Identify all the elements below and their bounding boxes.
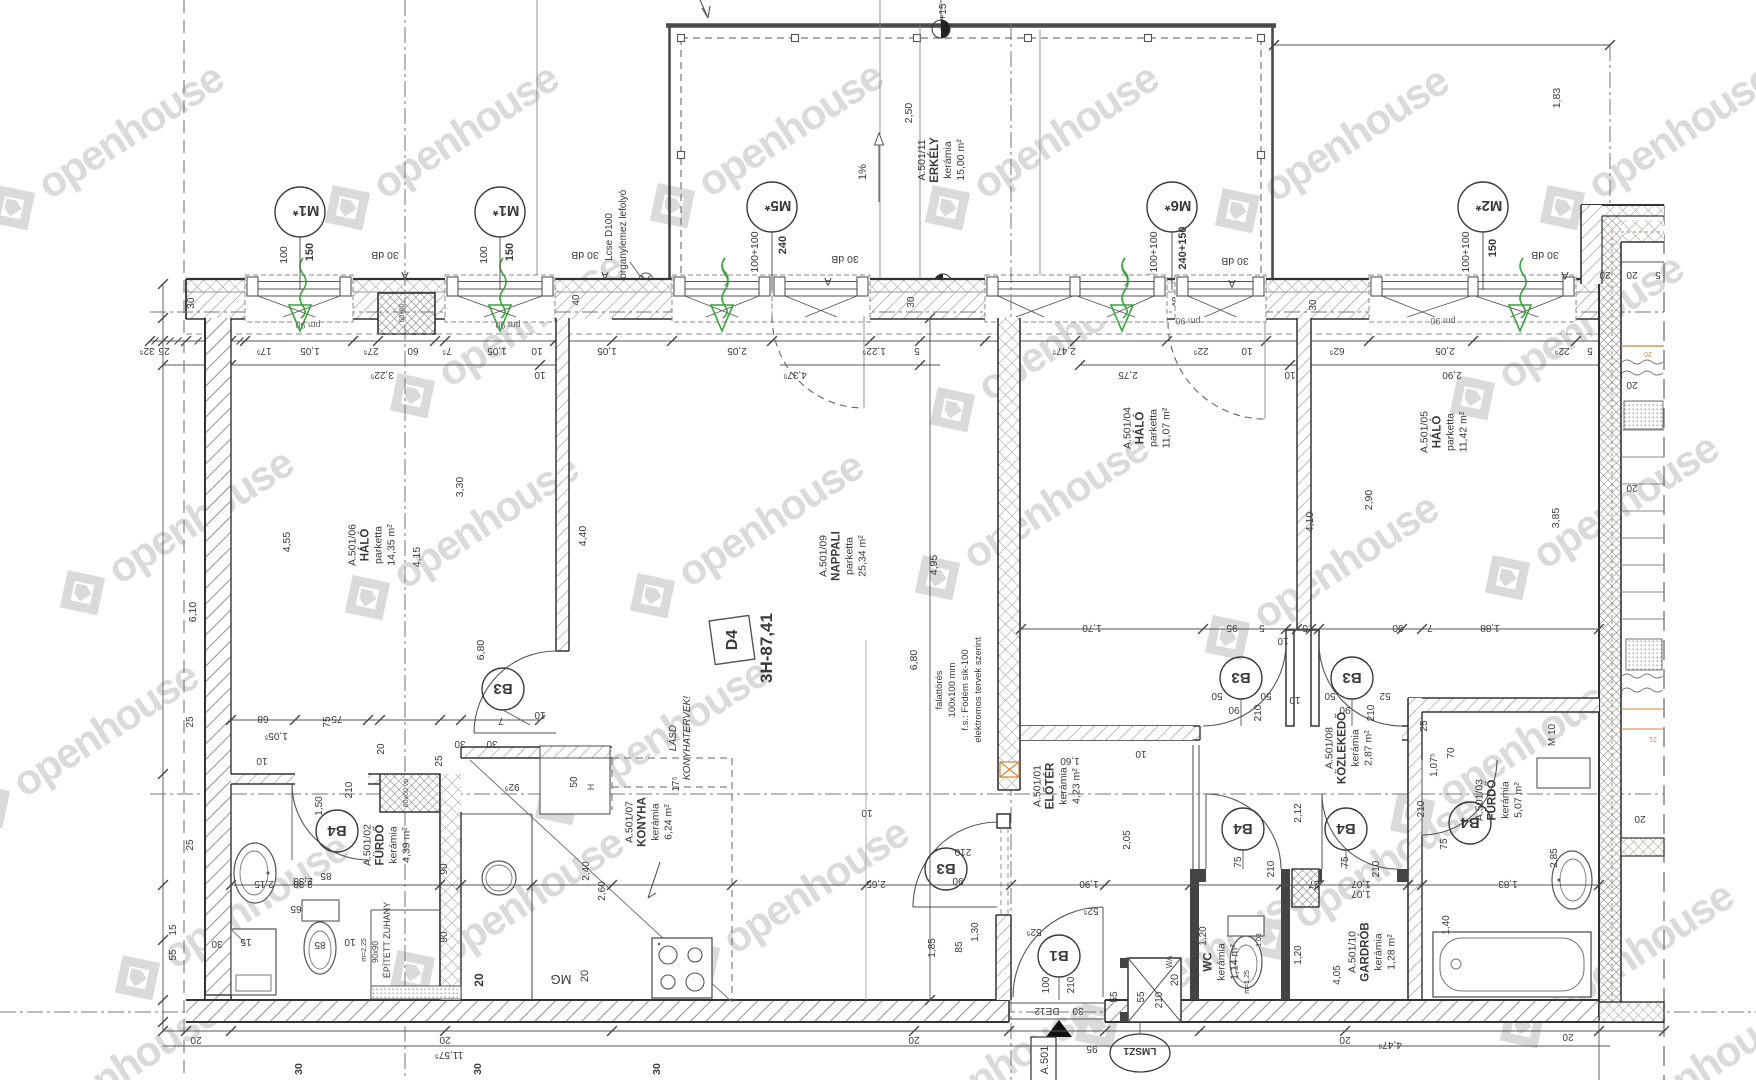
svg-text:KONYHATERVEK!: KONYHATERVEK! [682, 696, 693, 780]
svg-text:HÁLÓ: HÁLÓ [359, 529, 372, 562]
svg-text:2,05: 2,05 [727, 345, 747, 356]
svg-text:11,57⁵: 11,57⁵ [435, 1049, 463, 1060]
main axis dash-dot A [150, 311, 1664, 313]
svg-text:100+100: 100+100 [749, 231, 761, 272]
svg-text:A.501/01: A.501/01 [1032, 765, 1044, 807]
svg-text:5: 5 [1302, 622, 1308, 633]
svg-text:210: 210 [1154, 991, 1165, 1008]
svg-text:falattörés: falattörés [934, 670, 945, 709]
furdo03 washbasin [1552, 851, 1592, 909]
svg-text:68: 68 [257, 713, 269, 724]
window 985-1167 [985, 275, 1167, 322]
svg-text:m=1,25: m=1,25 [1244, 970, 1251, 994]
svg-text:pm 90: pm 90 [1430, 316, 1455, 326]
mid axis dash-dot horizontal [150, 793, 1664, 795]
svg-text:1,28 m²: 1,28 m² [1386, 934, 1398, 970]
svg-text:2,40: 2,40 [581, 861, 592, 881]
svg-text:m=2,25: m=2,25 [361, 938, 368, 962]
furdo02 washbasin [234, 843, 276, 903]
svg-text:40: 40 [571, 294, 582, 306]
ELOTER/KOZLEKEDO partition [1192, 745, 1194, 869]
bubble B1 [1038, 935, 1080, 977]
svg-text:10: 10 [534, 369, 546, 380]
svg-text:210: 210 [1371, 860, 1382, 877]
svg-text:240+150: 240+150 [1177, 226, 1189, 269]
svg-text:pm 90: pm 90 [495, 320, 520, 330]
svg-text:10: 10 [861, 807, 873, 818]
B1 entry door [1013, 907, 1103, 997]
svg-text:55: 55 [168, 949, 179, 961]
svg-text:1,83: 1,83 [1551, 88, 1563, 109]
svg-text:4,95: 4,95 [928, 555, 940, 576]
svg-text:1,88: 1,88 [1480, 622, 1500, 633]
svg-text:20: 20 [472, 973, 486, 987]
svg-text:KONYHA: KONYHA [637, 797, 649, 847]
svg-text:150: 150 [304, 243, 316, 261]
window 445-555 [445, 275, 555, 322]
svg-text:5: 5 [914, 345, 920, 356]
svg-text:100+100: 100+100 [1460, 231, 1472, 272]
svg-text:parketta: parketta [1445, 413, 1457, 451]
B4 door KOZLEKEDO->WC [1206, 794, 1281, 869]
svg-text:D4: D4 [724, 630, 741, 651]
svg-text:H: H [586, 784, 596, 791]
svg-text:kerámia: kerámia [1373, 933, 1385, 971]
svg-text:A.501/11: A.501/11 [916, 139, 928, 180]
svg-text:kerámia: kerámia [1058, 767, 1070, 805]
right exterior crosshatched wall [1599, 215, 1621, 1017]
window 772-870 [772, 275, 870, 322]
fresh air inlet arrow [1520, 258, 1526, 318]
svg-text:B4: B4 [327, 822, 347, 839]
svg-text:2,50: 2,50 [903, 103, 915, 124]
svg-text:M1*: M1* [293, 202, 320, 219]
balcony ERKELY outline [666, 23, 1276, 28]
svg-text:1,30: 1,30 [970, 922, 981, 942]
svg-text:Lcse D100: Lcse D100 [604, 213, 615, 261]
svg-text:20: 20 [1169, 974, 1181, 986]
svg-text:95: 95 [1226, 622, 1238, 633]
svg-text:10: 10 [344, 936, 356, 947]
svg-text:20: 20 [376, 743, 387, 755]
KONYHA leader arrow [648, 862, 660, 898]
svg-text:A: A [1561, 269, 1569, 281]
svg-text:210: 210 [1416, 800, 1427, 817]
svg-text:2,90: 2,90 [1363, 490, 1375, 511]
door niche walls between bedrooms [1286, 630, 1294, 726]
svg-text:100: 100 [478, 246, 490, 264]
svg-text:1,70: 1,70 [1082, 622, 1102, 633]
svg-text:WA: WA [1165, 955, 1174, 968]
svg-text:FÜRDŐ: FÜRDŐ [1486, 780, 1499, 821]
svg-text:B3: B3 [1342, 669, 1361, 686]
svg-text:A: A [824, 275, 832, 287]
bubble B3 [925, 848, 967, 890]
M reference bubbles [275, 187, 325, 290]
furdo02 wc toilet [302, 900, 339, 921]
svg-text:92⁵: 92⁵ [504, 781, 519, 792]
left vertical chain [162, 284, 164, 1031]
svg-text:210: 210 [344, 781, 355, 798]
svg-text:30 dB: 30 dB [1531, 249, 1558, 261]
balcony division + witness lines [919, 25, 921, 290]
svg-text:10: 10 [1241, 345, 1253, 356]
bottom axis dash-dot [0, 1011, 1756, 1013]
vertical axis B [404, 0, 406, 1080]
svg-text:10: 10 [1289, 694, 1301, 705]
svg-text:52⁵: 52⁵ [1026, 926, 1041, 937]
svg-text:B4: B4 [1233, 820, 1253, 837]
svg-text:kerámia: kerámia [1500, 781, 1512, 819]
svg-text:LMSZ1: LMSZ1 [1123, 1045, 1156, 1056]
svg-text:70: 70 [1446, 747, 1457, 759]
svg-text:1,20: 1,20 [1293, 945, 1304, 965]
svg-text:3,30: 3,30 [454, 477, 466, 498]
svg-text:20: 20 [190, 1034, 202, 1045]
svg-text:100: 100 [278, 246, 290, 264]
svg-text:2,47⁵: 2,47⁵ [1052, 345, 1076, 356]
svg-text:A.501/10: A.501/10 [1190, 941, 1202, 983]
svg-text:25: 25 [434, 755, 445, 767]
svg-text:30: 30 [186, 297, 197, 309]
window 245-353 [245, 275, 353, 322]
svg-text:A: A [601, 269, 609, 281]
nappali vertical chain [929, 318, 931, 1000]
fresh air inlet arrow [500, 258, 506, 318]
svg-text:90x90: 90x90 [371, 941, 380, 963]
svg-text:95: 95 [1086, 1043, 1098, 1054]
svg-text:11,42 m²: 11,42 m² [1458, 411, 1470, 452]
svg-text:2,87 m²: 2,87 m² [1363, 730, 1375, 766]
balcony door dashed swing [772, 316, 864, 408]
svg-text:WC: WC [1203, 952, 1215, 971]
svg-text:A.501/06: A.501/06 [347, 524, 359, 566]
svg-text:85: 85 [954, 941, 965, 953]
svg-text:20: 20 [1562, 1031, 1574, 1042]
B3 door ELOTER->HALO04 [1203, 643, 1286, 726]
svg-text:parketta: parketta [373, 526, 385, 564]
svg-text:A.501/04: A.501/04 [1122, 407, 1134, 449]
svg-text:DE12: DE12 [1034, 1005, 1059, 1016]
svg-text:90: 90 [439, 931, 450, 943]
arrow into balcony corner [700, 0, 710, 18]
svg-text:B3: B3 [1231, 669, 1250, 686]
+15 level mark top [940, 0, 942, 30]
svg-text:1,05⁵: 1,05⁵ [264, 730, 288, 741]
bottom exterior wall [186, 1000, 1009, 1022]
stove [652, 938, 712, 998]
svg-text:20: 20 [439, 1034, 451, 1045]
WC / GARDROB walls [1190, 869, 1199, 1000]
svg-text:A.501/08: A.501/08 [1324, 727, 1336, 769]
svg-text:M6*: M6* [1165, 197, 1192, 214]
wall HALO04 / HALO05 [1297, 318, 1311, 630]
top-right corner walls [1581, 205, 1664, 216]
svg-text:2,05: 2,05 [1435, 345, 1455, 356]
svg-text:2,90: 2,90 [1442, 369, 1462, 380]
svg-text:30 dB: 30 dB [831, 253, 858, 265]
svg-text:50: 50 [1324, 690, 1336, 701]
svg-text:NAPPALI: NAPPALI [831, 531, 843, 581]
svg-text:1,03: 1,03 [1256, 933, 1263, 947]
svg-text:17⁵: 17⁵ [256, 345, 271, 356]
svg-text:A.501/02: A.501/02 [362, 824, 374, 866]
svg-text:100x100 mm: 100x100 mm [947, 662, 958, 717]
svg-text:4,10: 4,10 [1304, 512, 1316, 533]
LMSZ1 bubble [1110, 1034, 1170, 1072]
svg-text:A.501/07: A.501/07 [624, 801, 636, 843]
svg-text:kerámia: kerámia [942, 141, 954, 179]
svg-text:B3: B3 [493, 680, 512, 697]
vertical axis through entry wall [1010, 24, 1012, 1080]
bubble B4 [1222, 808, 1264, 850]
B4 door KOZLEKEDO->GARDROB [1322, 794, 1397, 869]
svg-text:20: 20 [579, 970, 591, 982]
shower enclosure [370, 910, 372, 999]
svg-text:MG: MG [551, 972, 572, 987]
svg-text:LÁSD: LÁSD [666, 725, 679, 751]
svg-text:50: 50 [1260, 690, 1272, 701]
svg-text:B4: B4 [1460, 814, 1480, 831]
chain halo06 y720 [231, 719, 540, 721]
svg-text:B1: B1 [1049, 947, 1068, 964]
svg-text:20: 20 [1626, 482, 1638, 493]
svg-text:90: 90 [1392, 622, 1404, 633]
svg-text:15,00 m²: 15,00 m² [955, 139, 967, 181]
svg-text:M5*: M5* [765, 197, 792, 214]
svg-text:ERKÉLY: ERKÉLY [928, 137, 941, 183]
svg-text:10: 10 [1135, 748, 1147, 759]
kitchen diagonal leader [470, 760, 731, 1001]
svg-text:1,07: 1,07 [1351, 878, 1371, 889]
1% slope arrow [878, 133, 880, 202]
svg-text:21: 21 [1649, 735, 1657, 742]
wc room toilet [1228, 916, 1264, 936]
svg-text:2,75: 2,75 [1118, 369, 1138, 380]
svg-text:5: 5 [1655, 269, 1661, 280]
svg-text:210: 210 [1253, 704, 1264, 721]
halo04 balcony door dashed swing [1168, 322, 1265, 419]
svg-text:1,07: 1,07 [1351, 888, 1371, 899]
svg-text:1,83: 1,83 [1498, 878, 1518, 889]
svg-text:1,05: 1,05 [300, 345, 320, 356]
bubble B4 [1449, 802, 1491, 844]
svg-text:2,12: 2,12 [1293, 803, 1304, 823]
svg-text:4,55: 4,55 [281, 532, 293, 553]
svg-text:20: 20 [1339, 1034, 1351, 1045]
svg-text:210: 210 [1066, 976, 1077, 993]
chain bedrooms y629 [1021, 628, 1599, 630]
svg-text:4,40: 4,40 [577, 526, 589, 547]
svg-text:27⁵: 27⁵ [363, 345, 378, 356]
svg-text:20: 20 [908, 1034, 920, 1045]
svg-text:65: 65 [290, 903, 302, 914]
svg-text:B3: B3 [936, 860, 955, 877]
svg-text:30: 30 [293, 1063, 305, 1075]
svg-text:7: 7 [1427, 622, 1433, 633]
fresh air inlet arrow [1122, 258, 1128, 318]
svg-text:25: 25 [1419, 720, 1430, 732]
svg-text:kerámia: kerámia [1216, 943, 1228, 981]
svg-text:75: 75 [1340, 856, 1351, 868]
svg-text:55: 55 [1136, 991, 1147, 1003]
wall NAPPALI / HALO04+ELOTER (crosshatched) [998, 318, 1020, 790]
svg-text:30: 30 [1072, 1005, 1084, 1016]
svg-text:M1*: M1* [493, 202, 520, 219]
entry arrow marker [1046, 1020, 1072, 1037]
svg-text:60x60 vb: 60x60 vb [403, 779, 410, 808]
orange repair patch on wall [1000, 762, 1019, 777]
svg-text:1,07⁵: 1,07⁵ [1429, 753, 1440, 777]
B3 door NAPPALI->ELOTER [913, 822, 997, 907]
svg-text:30: 30 [486, 738, 498, 749]
wall piece NAPPALI bottom right [996, 915, 1011, 1000]
svg-text:30: 30 [454, 738, 466, 749]
svg-text:M 10: M 10 [1547, 723, 1558, 746]
svg-text:6,80: 6,80 [908, 650, 920, 671]
svg-text:1,60: 1,60 [1060, 755, 1080, 766]
svg-text:25,34 m²: 25,34 m² [857, 535, 869, 577]
1,83 top right dim [1274, 44, 1610, 46]
svg-text:A.501/09: A.501/09 [818, 535, 830, 577]
60x60 shaft in furdo02 [380, 774, 440, 812]
svg-text:7⁵: 7⁵ [442, 345, 452, 356]
wall FURDO02 / KONYHA [440, 774, 461, 1000]
bedroom bottom wall [1021, 726, 1200, 740]
svg-text:B4: B4 [1336, 820, 1356, 837]
svg-text:20: 20 [1644, 350, 1652, 357]
svg-text:5: 5 [1259, 622, 1265, 633]
svg-text:elektromos tervek szerint: elektromos tervek szerint [973, 637, 984, 743]
svg-text:90: 90 [952, 875, 964, 886]
dashed lines under top wall [186, 333, 1604, 335]
svg-text:5: 5 [1587, 345, 1593, 356]
svg-text:1,05: 1,05 [597, 345, 617, 356]
svg-text:30: 30 [1308, 299, 1319, 311]
svg-text:HÁLÓ: HÁLÓ [1431, 416, 1444, 449]
svg-text:4,47⁵: 4,47⁵ [1378, 1039, 1402, 1050]
kitchen sink [482, 861, 516, 895]
svg-text:6,80: 6,80 [475, 640, 487, 661]
B4 door KOZLEKEDO->FURDO03 [1422, 760, 1497, 835]
bubble B3 [1220, 657, 1262, 699]
svg-text:3,85: 3,85 [1550, 508, 1562, 529]
svg-text:A.501: A.501 [1039, 1046, 1051, 1075]
svg-text:20: 20 [1626, 269, 1638, 280]
svg-text:22⁵: 22⁵ [1193, 345, 1208, 356]
svg-text:f.s.: Födém sík-100: f.s.: Födém sík-100 [960, 649, 971, 730]
svg-text:1,14 m²: 1,14 m² [1229, 944, 1241, 980]
svg-text:4,37⁵: 4,37⁵ [783, 369, 807, 380]
svg-text:FÜRDŐ: FÜRDŐ [374, 825, 387, 866]
furdo03 bathtub [1433, 932, 1591, 997]
svg-text:3H-87,41: 3H-87,41 [757, 613, 776, 683]
bubble B3 [1331, 657, 1373, 699]
balcony inner dashed rail [681, 37, 1261, 39]
svg-text:4,23 m²: 4,23 m² [1071, 768, 1083, 804]
svg-text:210: 210 [954, 846, 971, 857]
kitchen dashed plan boundary [612, 757, 732, 759]
svg-text:A: A [1228, 277, 1236, 289]
shower drain strip [371, 986, 461, 999]
window 672-772 [672, 275, 772, 322]
FURDO02 top wall [231, 774, 295, 784]
+15,33 level at wall [934, 274, 943, 292]
svg-text:7: 7 [498, 715, 504, 726]
svg-text:150: 150 [504, 243, 516, 261]
B3 door HALO06 (bottom) [474, 651, 556, 733]
orange insulation line in right wall [1611, 231, 1613, 1017]
svg-text:14,35 m²: 14,35 m² [386, 524, 398, 566]
door jamb below (to ELOTER) [997, 814, 1010, 828]
svg-text:2,65: 2,65 [866, 878, 886, 889]
kitchen cabinet [540, 746, 610, 814]
svg-text:4,15: 4,15 [411, 547, 423, 568]
svg-text:HÁLÓ: HÁLÓ [1134, 412, 1147, 445]
kozlekedo top wall right piece [1402, 726, 1422, 740]
svg-text:30 dB: 30 dB [1221, 255, 1248, 267]
staircase / shaft strip right [1621, 345, 1664, 347]
svg-text:3,22⁵: 3,22⁵ [370, 369, 394, 380]
B3 door KOZLEKEDO->HALO05 [1319, 643, 1402, 726]
svg-text:10: 10 [256, 755, 268, 766]
bubble B3 [482, 668, 524, 710]
svg-text:10: 10 [531, 345, 543, 356]
wall HALO06 / NAPPALI [556, 318, 569, 651]
svg-text:27: 27 [1308, 878, 1320, 889]
svg-text:2,30: 2,30 [293, 875, 313, 886]
svg-text:75: 75 [1233, 856, 1244, 868]
svg-text:2,15: 2,15 [254, 878, 274, 889]
svg-text:50: 50 [569, 776, 580, 788]
furdo03 shelf [1537, 758, 1590, 788]
KONYHA top wall [461, 747, 612, 758]
svg-text:4,39 m²: 4,39 m² [401, 827, 413, 863]
svg-text:1,05: 1,05 [487, 345, 507, 356]
svg-text:1%: 1% [857, 164, 869, 180]
svg-text:5,07 m²: 5,07 m² [1513, 782, 1525, 818]
svg-text:2,85: 2,85 [1549, 848, 1560, 868]
svg-text:6,24 m²: 6,24 m² [663, 804, 675, 840]
svg-text:kerámia: kerámia [388, 826, 400, 864]
svg-text:60: 60 [407, 345, 419, 356]
svg-text:52⁵: 52⁵ [1083, 905, 1098, 916]
bubble B4 [1325, 808, 1367, 850]
svg-text:30 dB: 30 dB [371, 249, 398, 261]
svg-text:1,85: 1,85 [927, 938, 938, 958]
svg-text:25: 25 [185, 839, 196, 851]
svg-text:52: 52 [1379, 690, 1391, 701]
60x60 pillar [378, 293, 435, 334]
B4 door FURDO02 [292, 784, 368, 860]
svg-text:20: 20 [1599, 269, 1611, 280]
svg-text:25: 25 [185, 716, 196, 728]
svg-text:ÉPÍTETT ZUHANY: ÉPÍTETT ZUHANY [382, 902, 392, 978]
top exterior wall band [186, 279, 1604, 292]
svg-text:75: 75 [1439, 838, 1450, 850]
svg-text:10: 10 [1284, 369, 1296, 380]
svg-text:25: 25 [158, 345, 170, 356]
svg-text:85: 85 [320, 870, 332, 881]
svg-text:55: 55 [1109, 991, 1120, 1003]
svg-text:11,07 m²: 11,07 m² [1161, 407, 1173, 448]
svg-text:30: 30 [211, 938, 223, 949]
kitchen counter edge [531, 814, 533, 1000]
svg-text:30: 30 [472, 1063, 484, 1075]
fresh air inlet arrow [722, 258, 728, 318]
svg-text:22⁵: 22⁵ [1554, 345, 1569, 356]
svg-text:A.501/05: A.501/05 [1419, 411, 1431, 453]
